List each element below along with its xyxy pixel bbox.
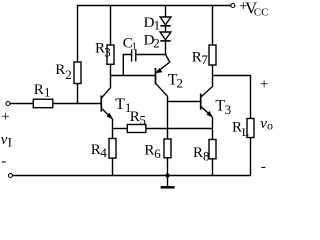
wire R2 branch upper [77,5,79,62]
resistor R1 [33,99,53,108]
resistor R6 [164,139,171,158]
svg-text:2: 2 [65,67,72,82]
wire R7 bottom [212,65,214,76]
wire D1 to D2 [165,26,167,32]
wire bottom rail [13,175,251,177]
svg-text:R: R [144,142,154,158]
svg-text:5: 5 [140,113,147,128]
wire T1 collector up [110,76,112,88]
svg-text:2: 2 [153,36,160,51]
svg-text:R: R [130,109,140,125]
resistor R8 [209,140,216,159]
wire input to R1 [10,103,33,105]
resistor RL [247,119,254,138]
resistor R4 [109,139,116,159]
svg-text:1: 1 [154,17,161,32]
svg-text:6: 6 [154,146,161,161]
svg-text:R: R [192,49,202,65]
capacitor C1 [132,50,136,62]
wire RL bottom leg [250,138,252,177]
wire R4 bottom [112,158,114,175]
resistor R5 [127,125,146,133]
svg-text:+: + [1,109,9,125]
node VCC terminal [231,4,235,8]
svg-text:-: - [261,159,266,175]
svg-text:-: - [1,153,6,169]
svg-text:3: 3 [104,44,111,59]
svg-text:R: R [34,82,44,98]
svg-text:o: o [267,119,273,133]
wire C1 left leg [123,55,131,76]
svg-text:CC: CC [254,7,269,19]
svg-text:+: + [260,76,268,92]
wire R3 bottom to T2 base node [110,64,112,76]
svg-text:8: 8 [203,148,210,163]
svg-text:4: 4 [100,145,107,160]
wire R5 right to output node [146,128,213,130]
svg-text:1: 1 [44,84,51,99]
svg-text:3: 3 [225,102,232,117]
wire T1 emitter down to R4 [112,119,114,139]
wire R8 bottom [212,159,214,176]
wire R7 node to RL top [212,75,251,77]
wire R1 to T1 base [53,103,101,105]
wire T2 collector down to R6 [167,96,169,139]
svg-text:7: 7 [201,52,208,67]
wire RL top leg [250,75,252,119]
transistor T3 [201,87,213,118]
svg-text:R: R [91,142,101,158]
diode D1 [160,17,171,26]
wire T3 collector up to R7 node [212,76,214,88]
wire R3 top to rail [110,6,112,46]
svg-text:R: R [193,145,203,161]
wire T3 base [168,101,201,103]
wire rail to D1 [165,6,167,18]
svg-text:T: T [115,96,125,113]
svg-text:R: R [232,119,242,135]
svg-text:R: R [55,62,65,78]
node input terminal top [6,102,10,106]
wire R2 branch lower [77,84,79,104]
transistor T1 [101,88,113,120]
diode D2 [160,32,171,41]
wire node to T2 base [110,75,155,77]
wire C1 right to D2 node [136,54,165,56]
resistor R2 [74,62,81,84]
svg-text:I: I [8,135,12,150]
resistor R7 [209,45,216,65]
wire R6 bottom to ground [167,158,169,186]
wire T3 emitter down to R8 [212,117,214,140]
ground [161,186,175,189]
wire top VCC rail [77,5,231,7]
transistor T2 [155,55,170,97]
svg-text:L: L [242,125,249,139]
svg-text:1: 1 [132,42,137,53]
node input terminal bottom [9,174,13,178]
wire D2 to T2 emitter node [165,41,167,55]
wire rail to R7 [212,6,214,46]
node ground junction dot [165,173,169,177]
svg-text:2: 2 [176,76,183,91]
resistor R3 [107,45,114,64]
wire R5 left [112,128,127,130]
